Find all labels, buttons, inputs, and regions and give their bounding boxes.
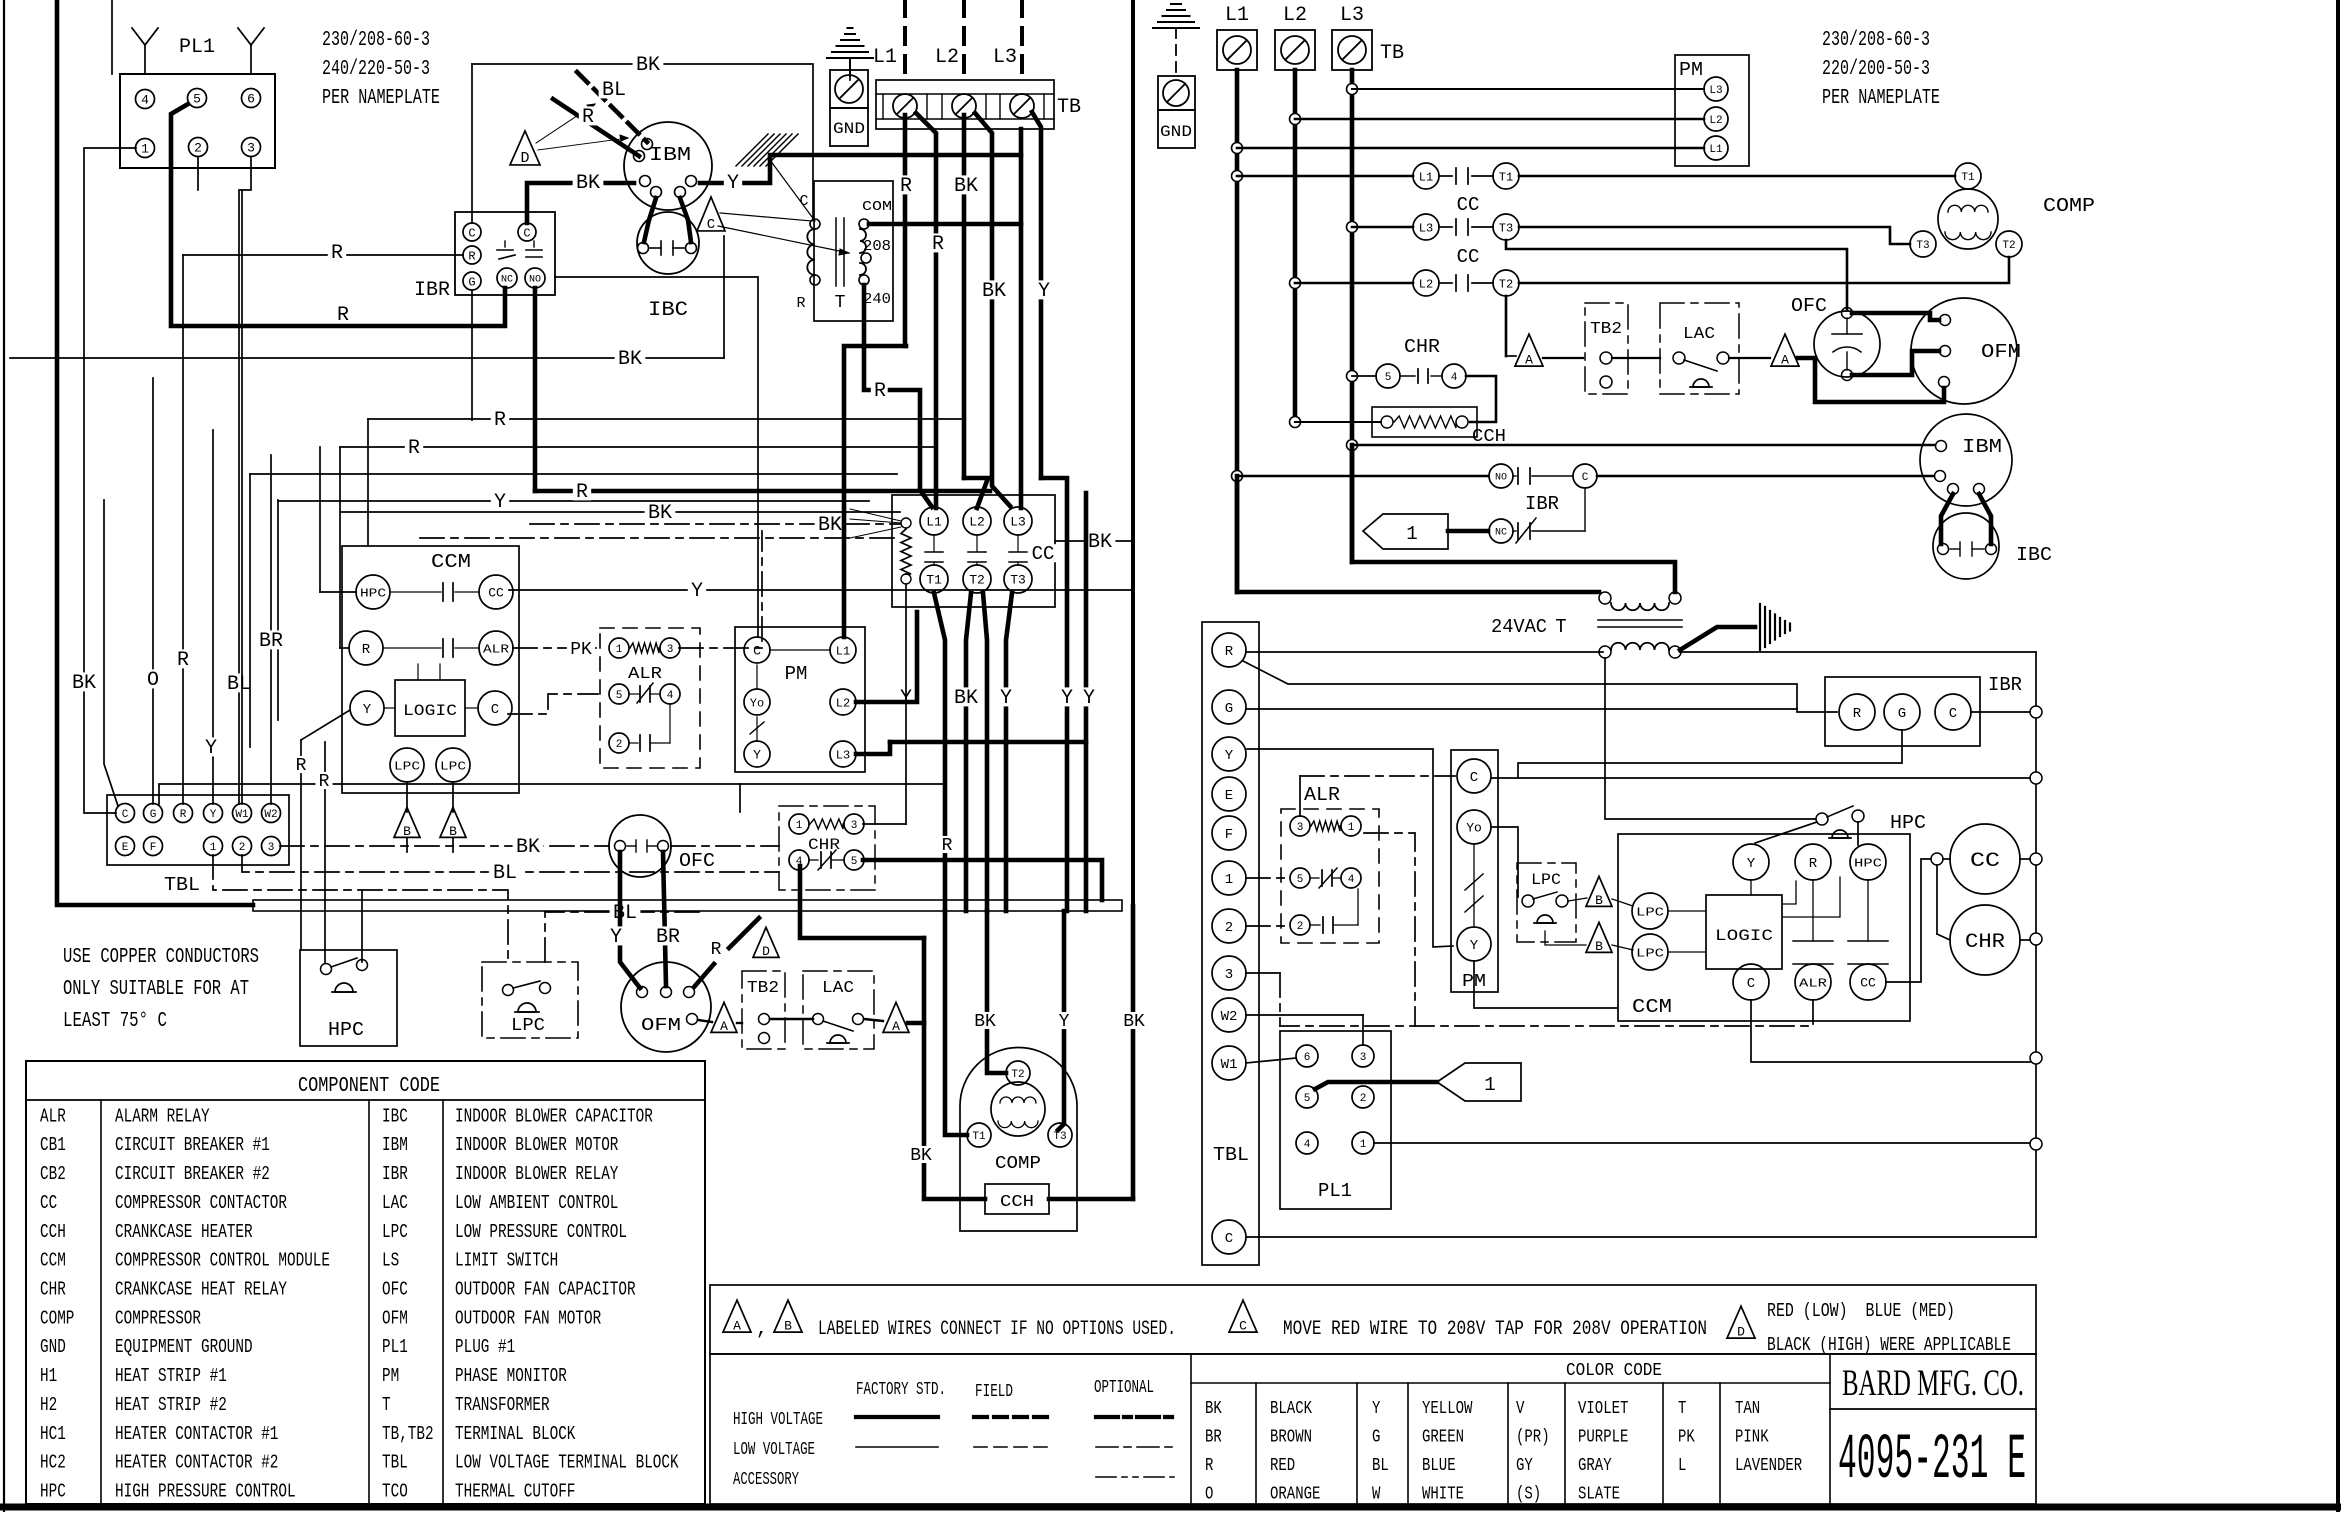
svg-text:R: R xyxy=(408,437,420,460)
svg-text:BK: BK xyxy=(516,836,540,859)
svg-text:YELLOW: YELLOW xyxy=(1422,1399,1473,1419)
svg-text:Y: Y xyxy=(210,809,217,821)
svg-text:R: R xyxy=(1225,644,1234,660)
svg-text:R: R xyxy=(494,409,506,432)
svg-text:PHASE MONITOR: PHASE MONITOR xyxy=(455,1365,567,1387)
svg-text:ALR: ALR xyxy=(628,665,662,684)
svg-text:VIOLET: VIOLET xyxy=(1578,1399,1629,1419)
svg-text:BK: BK xyxy=(576,172,600,195)
svg-text:LIMIT SWITCH: LIMIT SWITCH xyxy=(455,1250,558,1272)
svg-text:NC: NC xyxy=(501,275,513,286)
svg-text:BL: BL xyxy=(227,673,251,696)
svg-text:HPC: HPC xyxy=(328,1019,364,1041)
svg-text:CC: CC xyxy=(40,1192,57,1214)
svg-text:RED: RED xyxy=(1270,1456,1295,1476)
svg-text:R: R xyxy=(582,106,594,129)
svg-text:D: D xyxy=(762,944,770,959)
svg-text:IBC: IBC xyxy=(2016,544,2052,566)
svg-text:TB,TB2: TB,TB2 xyxy=(382,1423,434,1445)
svg-text:R: R xyxy=(1853,706,1862,722)
svg-text:HEAT STRIP #1: HEAT STRIP #1 xyxy=(115,1365,227,1387)
svg-text:B: B xyxy=(1595,939,1603,954)
svg-text:5: 5 xyxy=(1304,1093,1311,1105)
svg-text:CB1: CB1 xyxy=(40,1134,66,1156)
svg-text:T3: T3 xyxy=(1916,240,1929,252)
svg-text:GRAY: GRAY xyxy=(1578,1456,1612,1476)
svg-text:CHR: CHR xyxy=(1965,931,2005,954)
svg-text:6: 6 xyxy=(247,92,255,107)
svg-text:BR: BR xyxy=(1205,1428,1222,1448)
svg-text:CIRCUIT BREAKER #2: CIRCUIT BREAKER #2 xyxy=(115,1163,270,1185)
svg-text:Y: Y xyxy=(1000,687,1012,710)
svg-text:LPC: LPC xyxy=(511,1016,545,1036)
svg-text:TERMINAL BLOCK: TERMINAL BLOCK xyxy=(455,1423,576,1445)
svg-text:A: A xyxy=(720,1019,728,1034)
svg-text:IBR: IBR xyxy=(382,1163,408,1185)
svg-text:BK: BK xyxy=(636,54,660,77)
svg-text:T1: T1 xyxy=(926,573,942,588)
svg-text:BL: BL xyxy=(602,79,626,102)
svg-text:L2: L2 xyxy=(935,46,959,69)
svg-text:TBL: TBL xyxy=(382,1452,408,1474)
svg-text:HEATER CONTACTOR #1: HEATER CONTACTOR #1 xyxy=(115,1423,278,1445)
svg-text:C: C xyxy=(707,217,715,233)
svg-text:LPC: LPC xyxy=(1636,946,1664,960)
svg-text:T3: T3 xyxy=(1053,1131,1066,1143)
svg-text:F: F xyxy=(150,842,157,854)
svg-text:LOW AMBIENT CONTROL: LOW AMBIENT CONTROL xyxy=(455,1192,618,1214)
svg-text:BK: BK xyxy=(648,502,672,525)
svg-text:MOVE RED WIRE TO 208V TAP FOR: MOVE RED WIRE TO 208V TAP FOR 208V OPERA… xyxy=(1283,1318,1707,1341)
svg-text:CHR: CHR xyxy=(1404,336,1440,358)
svg-text:LOGIC: LOGIC xyxy=(1715,927,1773,945)
svg-text:T3: T3 xyxy=(1010,573,1026,588)
svg-text:R: R xyxy=(932,233,944,256)
svg-text:2: 2 xyxy=(239,842,246,854)
svg-text:6: 6 xyxy=(1304,1052,1311,1064)
svg-text:GND: GND xyxy=(1160,123,1192,141)
svg-text:T: T xyxy=(1555,616,1566,638)
svg-text:R: R xyxy=(337,304,349,327)
svg-text:WHITE: WHITE xyxy=(1422,1485,1464,1505)
svg-text:PURPLE: PURPLE xyxy=(1578,1428,1628,1448)
svg-text:CRANKCASE HEAT RELAY: CRANKCASE HEAT RELAY xyxy=(115,1279,287,1301)
svg-text:FACTORY STD.: FACTORY STD. xyxy=(856,1380,946,1400)
svg-text:OPTIONAL: OPTIONAL xyxy=(1094,1378,1154,1398)
svg-text:5: 5 xyxy=(616,690,623,702)
svg-text:CCM: CCM xyxy=(431,551,471,573)
svg-text:4: 4 xyxy=(1451,372,1458,384)
svg-text:L1: L1 xyxy=(873,46,897,69)
svg-text:PM: PM xyxy=(1679,59,1703,81)
svg-text:BK: BK xyxy=(1205,1399,1222,1419)
svg-text:OFM: OFM xyxy=(382,1307,408,1329)
svg-text:B: B xyxy=(1595,893,1603,908)
svg-text:GREEN: GREEN xyxy=(1422,1428,1464,1448)
svg-text:R: R xyxy=(468,249,475,263)
svg-text:B: B xyxy=(403,824,411,839)
svg-text:COMP: COMP xyxy=(995,1154,1041,1174)
svg-text:ALARM RELAY: ALARM RELAY xyxy=(115,1105,210,1127)
svg-text:IBR: IBR xyxy=(414,279,450,302)
svg-text:TCO: TCO xyxy=(382,1481,408,1503)
svg-text:3: 3 xyxy=(851,820,858,832)
svg-text:IBC: IBC xyxy=(648,299,688,322)
svg-text:4: 4 xyxy=(1348,874,1355,886)
svg-text:Y: Y xyxy=(1470,938,1479,954)
svg-text:TAN: TAN xyxy=(1735,1399,1760,1419)
svg-text:BK: BK xyxy=(1123,1012,1145,1032)
svg-text:TBL: TBL xyxy=(1213,1144,1249,1166)
svg-text:Y: Y xyxy=(1061,687,1073,710)
svg-text:LAC: LAC xyxy=(822,979,854,998)
svg-text:R: R xyxy=(711,940,722,960)
svg-text:1: 1 xyxy=(141,142,149,157)
svg-text:T: T xyxy=(382,1394,391,1416)
svg-text:4: 4 xyxy=(141,93,149,108)
svg-text:2: 2 xyxy=(194,141,202,156)
svg-text:C: C xyxy=(799,193,808,210)
svg-text:2: 2 xyxy=(616,739,623,751)
svg-text:230/208-60-3: 230/208-60-3 xyxy=(322,29,430,52)
svg-text:T2: T2 xyxy=(1499,277,1513,291)
svg-text:1: 1 xyxy=(1360,1139,1367,1151)
svg-text:V: V xyxy=(1516,1399,1525,1419)
svg-text:R: R xyxy=(900,175,912,198)
svg-text:IBM: IBM xyxy=(1962,436,2002,458)
svg-text:E: E xyxy=(122,842,129,854)
svg-text:240/220-50-3: 240/220-50-3 xyxy=(322,58,430,81)
svg-text:IBC: IBC xyxy=(382,1105,408,1127)
svg-text:1: 1 xyxy=(1406,523,1417,545)
svg-text:R: R xyxy=(362,642,371,658)
svg-text:2: 2 xyxy=(1225,920,1233,936)
svg-text:NC: NC xyxy=(1495,528,1507,539)
svg-text:,: , xyxy=(756,1318,768,1341)
svg-text:COMP: COMP xyxy=(40,1307,74,1329)
svg-text:CCM: CCM xyxy=(40,1250,66,1272)
svg-text:L2: L2 xyxy=(969,515,985,530)
svg-text:C: C xyxy=(468,226,475,240)
svg-text:LAC: LAC xyxy=(382,1192,408,1214)
svg-text:CC: CC xyxy=(1970,850,2000,873)
svg-text:R: R xyxy=(874,380,886,403)
svg-text:T3: T3 xyxy=(1499,221,1513,235)
svg-text:USE COPPER CONDUCTORS: USE COPPER CONDUCTORS xyxy=(63,946,259,969)
svg-text:D: D xyxy=(520,150,529,167)
svg-text:L2: L2 xyxy=(1283,4,1307,27)
svg-text:PK: PK xyxy=(1678,1428,1695,1448)
svg-text:G: G xyxy=(150,809,157,821)
svg-text:CC: CC xyxy=(1032,543,1055,565)
svg-text:H1: H1 xyxy=(40,1365,57,1387)
svg-text:TB: TB xyxy=(1057,96,1081,119)
svg-text:CCM: CCM xyxy=(1632,996,1672,1018)
svg-text:LABELED WIRES CONNECT IF NO OP: LABELED WIRES CONNECT IF NO OPTIONS USED… xyxy=(818,1318,1176,1341)
svg-text:L1: L1 xyxy=(1225,4,1249,27)
svg-text:Y: Y xyxy=(1059,1012,1070,1032)
svg-text:Y: Y xyxy=(610,926,622,949)
svg-text:TRANSFORMER: TRANSFORMER xyxy=(455,1394,550,1416)
svg-text:LAC: LAC xyxy=(1683,325,1715,344)
svg-text:PL1: PL1 xyxy=(1318,1180,1352,1202)
svg-text:BR: BR xyxy=(259,630,283,653)
svg-text:W1: W1 xyxy=(1221,1057,1238,1073)
svg-text:LOW PRESSURE CONTROL: LOW PRESSURE CONTROL xyxy=(455,1221,627,1243)
svg-text:2: 2 xyxy=(1360,1093,1367,1105)
svg-text:L2: L2 xyxy=(836,696,850,710)
svg-text:CHR: CHR xyxy=(40,1279,66,1301)
svg-text:L1: L1 xyxy=(836,644,850,658)
svg-text:W1: W1 xyxy=(235,809,249,821)
svg-text:BROWN: BROWN xyxy=(1270,1428,1312,1448)
svg-text:RED (LOW) BLUE (MED): RED (LOW) BLUE (MED) xyxy=(1767,1300,1955,1322)
svg-text:4095-231 E: 4095-231 E xyxy=(1838,1425,2026,1497)
svg-text:R: R xyxy=(576,481,588,504)
svg-text:PER NAMEPLATE: PER NAMEPLATE xyxy=(1822,87,1940,110)
svg-text:HPC: HPC xyxy=(360,586,386,600)
svg-text:3: 3 xyxy=(1225,967,1233,983)
svg-text:LAVENDER: LAVENDER xyxy=(1735,1456,1802,1476)
svg-text:THERMAL CUTOFF: THERMAL CUTOFF xyxy=(455,1481,575,1503)
svg-text:CIRCUIT BREAKER #1: CIRCUIT BREAKER #1 xyxy=(115,1134,270,1156)
svg-text:GND: GND xyxy=(40,1336,66,1358)
svg-text:1: 1 xyxy=(616,644,623,656)
svg-text:BK: BK xyxy=(910,1146,932,1166)
svg-text:HPC: HPC xyxy=(40,1481,66,1503)
svg-text:CCH: CCH xyxy=(1000,1193,1034,1212)
svg-text:C: C xyxy=(1225,1231,1233,1247)
svg-text:LPC: LPC xyxy=(440,759,466,773)
svg-text:HIGH PRESSURE CONTROL: HIGH PRESSURE CONTROL xyxy=(115,1481,296,1503)
svg-text:LPC: LPC xyxy=(1531,871,1561,889)
svg-text:TB2: TB2 xyxy=(747,979,779,998)
svg-text:H2: H2 xyxy=(40,1394,57,1416)
svg-text:BLACK (HIGH) WERE APPLICABLE: BLACK (HIGH) WERE APPLICABLE xyxy=(1767,1334,2011,1356)
svg-text:C: C xyxy=(1239,1319,1247,1334)
svg-text:CC: CC xyxy=(1860,976,1876,991)
svg-text:1: 1 xyxy=(1225,872,1233,888)
svg-text:(PR): (PR) xyxy=(1516,1428,1550,1448)
svg-text:D: D xyxy=(1737,1325,1745,1340)
svg-text:SLATE: SLATE xyxy=(1578,1485,1620,1505)
svg-text:OFM: OFM xyxy=(1981,341,2021,363)
svg-text:T1: T1 xyxy=(1961,172,1975,184)
svg-text:C: C xyxy=(1470,770,1478,786)
svg-text:C: C xyxy=(122,809,129,821)
svg-text:R: R xyxy=(796,295,805,312)
svg-text:ONLY SUITABLE FOR AT: ONLY SUITABLE FOR AT xyxy=(63,978,249,1001)
svg-text:R: R xyxy=(319,772,330,792)
svg-text:L3: L3 xyxy=(993,46,1017,69)
svg-text:Y: Y xyxy=(1747,856,1756,872)
svg-text:HPC: HPC xyxy=(1854,856,1882,870)
svg-text:C: C xyxy=(753,644,761,659)
svg-text:COMPONENT CODE: COMPONENT CODE xyxy=(298,1075,440,1098)
svg-text:HEATER CONTACTOR #2: HEATER CONTACTOR #2 xyxy=(115,1452,278,1474)
svg-text:L3: L3 xyxy=(1419,221,1433,235)
svg-text:B: B xyxy=(784,1319,792,1334)
svg-text:R: R xyxy=(1809,856,1818,872)
svg-text:BLACK: BLACK xyxy=(1270,1399,1312,1419)
svg-text:R: R xyxy=(180,809,187,821)
svg-text:CRANKCASE HEATER: CRANKCASE HEATER xyxy=(115,1221,253,1243)
svg-text:COM: COM xyxy=(862,199,892,215)
svg-text:G: G xyxy=(1372,1428,1380,1448)
svg-text:5: 5 xyxy=(1385,372,1392,384)
svg-text:CC: CC xyxy=(488,586,504,601)
svg-text:LPC: LPC xyxy=(394,759,420,773)
svg-text:Y: Y xyxy=(363,702,372,718)
svg-text:IBM: IBM xyxy=(649,144,691,166)
svg-text:CC: CC xyxy=(1457,194,1480,216)
svg-text:LOW VOLTAGE TERMINAL BLOCK: LOW VOLTAGE TERMINAL BLOCK xyxy=(455,1452,679,1474)
svg-text:5: 5 xyxy=(851,856,858,868)
svg-text:TB2: TB2 xyxy=(1590,320,1622,339)
svg-text:4: 4 xyxy=(1304,1139,1311,1151)
svg-text:(S): (S) xyxy=(1516,1485,1541,1505)
svg-text:INDOOR BLOWER RELAY: INDOOR BLOWER RELAY xyxy=(455,1163,619,1185)
svg-text:IBR: IBR xyxy=(1988,674,2022,696)
svg-text:BK: BK xyxy=(618,348,642,371)
svg-text:BK: BK xyxy=(72,672,96,695)
svg-text:PINK: PINK xyxy=(1735,1428,1769,1448)
svg-text:O: O xyxy=(1205,1485,1213,1505)
svg-text:220/200-50-3: 220/200-50-3 xyxy=(1822,58,1930,81)
svg-text:ALR: ALR xyxy=(1799,976,1827,990)
svg-text:Y: Y xyxy=(727,172,739,195)
svg-text:COMPRESSOR CONTROL MODULE: COMPRESSOR CONTROL MODULE xyxy=(115,1250,330,1272)
svg-text:OFM: OFM xyxy=(641,1016,681,1036)
svg-text:COLOR CODE: COLOR CODE xyxy=(1566,1361,1662,1381)
svg-text:NO: NO xyxy=(529,275,541,286)
svg-text:BK: BK xyxy=(954,175,978,198)
svg-text:OFC: OFC xyxy=(679,850,715,872)
svg-text:1: 1 xyxy=(1484,1074,1495,1096)
svg-text:HC2: HC2 xyxy=(40,1452,66,1474)
svg-text:Y: Y xyxy=(205,737,217,760)
svg-text:BK: BK xyxy=(1088,531,1112,554)
svg-text:HEAT STRIP #2: HEAT STRIP #2 xyxy=(115,1394,227,1416)
svg-text:LOGIC: LOGIC xyxy=(403,702,457,720)
svg-text:3: 3 xyxy=(268,842,275,854)
svg-text:PLUG #1: PLUG #1 xyxy=(455,1336,515,1358)
svg-text:OUTDOOR FAN MOTOR: OUTDOOR FAN MOTOR xyxy=(455,1307,601,1329)
svg-text:L3: L3 xyxy=(1709,85,1722,97)
svg-text:INDOOR BLOWER CAPACITOR: INDOOR BLOWER CAPACITOR xyxy=(455,1105,653,1127)
svg-text:3: 3 xyxy=(667,644,674,656)
svg-text:1: 1 xyxy=(210,842,217,854)
svg-text:4: 4 xyxy=(667,690,674,702)
svg-text:L1: L1 xyxy=(1709,144,1723,156)
svg-text:HPC: HPC xyxy=(1890,812,1926,834)
svg-text:BK: BK xyxy=(818,514,842,537)
svg-text:BK: BK xyxy=(954,687,978,710)
svg-text:CC: CC xyxy=(1457,246,1480,268)
svg-text:OUTDOOR FAN CAPACITOR: OUTDOOR FAN CAPACITOR xyxy=(455,1279,636,1301)
svg-text:BLUE: BLUE xyxy=(1422,1456,1456,1476)
svg-text:2: 2 xyxy=(1297,921,1304,933)
svg-text:COMP: COMP xyxy=(2043,195,2095,217)
svg-text:TB: TB xyxy=(1380,42,1404,65)
svg-text:G: G xyxy=(468,275,475,289)
svg-text:C: C xyxy=(1949,706,1957,722)
svg-text:CCH: CCH xyxy=(40,1221,66,1243)
svg-text:W2: W2 xyxy=(1221,1009,1238,1025)
svg-text:BR: BR xyxy=(656,926,680,949)
svg-text:E: E xyxy=(1225,788,1233,804)
svg-text:HC1: HC1 xyxy=(40,1423,66,1445)
svg-text:C: C xyxy=(1747,976,1755,992)
svg-text:CB2: CB2 xyxy=(40,1163,66,1185)
svg-text:F: F xyxy=(1225,827,1233,843)
svg-text:LEAST 75° C: LEAST 75° C xyxy=(63,1010,167,1033)
svg-text:ALR: ALR xyxy=(40,1105,66,1127)
svg-text:T1: T1 xyxy=(1499,170,1513,184)
svg-text:T2: T2 xyxy=(1011,1069,1024,1081)
svg-text:Y: Y xyxy=(494,491,506,514)
svg-text:IBR: IBR xyxy=(1525,493,1559,515)
svg-text:BL: BL xyxy=(613,902,637,925)
svg-text:PL1: PL1 xyxy=(179,36,215,59)
svg-text:G: G xyxy=(1225,701,1233,717)
svg-text:HIGH VOLTAGE: HIGH VOLTAGE xyxy=(733,1410,823,1430)
svg-text:W: W xyxy=(1372,1485,1381,1505)
svg-text:L1: L1 xyxy=(926,515,942,530)
svg-text:B: B xyxy=(449,824,457,839)
svg-text:LOW VOLTAGE: LOW VOLTAGE xyxy=(733,1440,815,1460)
svg-text:L2: L2 xyxy=(1709,115,1722,127)
svg-text:EQUIPMENT GROUND: EQUIPMENT GROUND xyxy=(115,1336,253,1358)
svg-text:R: R xyxy=(942,836,953,856)
svg-text:R: R xyxy=(331,242,343,265)
svg-text:Y: Y xyxy=(691,580,703,603)
svg-text:A: A xyxy=(733,1319,741,1334)
svg-text:C: C xyxy=(1582,472,1589,484)
svg-text:CHR: CHR xyxy=(808,836,840,854)
svg-text:PER NAMEPLATE: PER NAMEPLATE xyxy=(322,87,440,110)
svg-text:TBL: TBL xyxy=(164,874,200,896)
svg-text:3: 3 xyxy=(1297,822,1304,834)
svg-text:PM: PM xyxy=(382,1365,399,1387)
svg-text:C: C xyxy=(523,226,530,240)
svg-text:Y: Y xyxy=(1038,280,1050,303)
svg-text:A: A xyxy=(1525,353,1533,368)
svg-text:T: T xyxy=(835,293,846,313)
svg-text:T: T xyxy=(1678,1399,1687,1419)
svg-text:T2: T2 xyxy=(2002,240,2015,252)
svg-text:BK: BK xyxy=(974,1012,996,1032)
svg-text:GY: GY xyxy=(1516,1456,1533,1476)
svg-text:3: 3 xyxy=(247,141,255,156)
svg-text:A: A xyxy=(892,1019,900,1034)
svg-text:L: L xyxy=(1678,1456,1686,1476)
svg-text:COMPRESSOR CONTACTOR: COMPRESSOR CONTACTOR xyxy=(115,1192,287,1214)
svg-text:L3: L3 xyxy=(1340,4,1364,27)
svg-text:1: 1 xyxy=(796,820,803,832)
svg-text:OFC: OFC xyxy=(1791,295,1827,317)
svg-text:BK: BK xyxy=(982,280,1006,303)
svg-text:Y: Y xyxy=(1083,687,1095,710)
svg-text:BL: BL xyxy=(1372,1456,1389,1476)
svg-text:GND: GND xyxy=(833,120,865,138)
svg-text:OFC: OFC xyxy=(382,1279,408,1301)
svg-text:L1: L1 xyxy=(1419,170,1433,184)
svg-text:IBM: IBM xyxy=(382,1134,408,1156)
svg-text:Yo: Yo xyxy=(750,696,764,710)
svg-text:INDOOR BLOWER MOTOR: INDOOR BLOWER MOTOR xyxy=(455,1134,618,1156)
svg-text:LS: LS xyxy=(382,1250,399,1272)
